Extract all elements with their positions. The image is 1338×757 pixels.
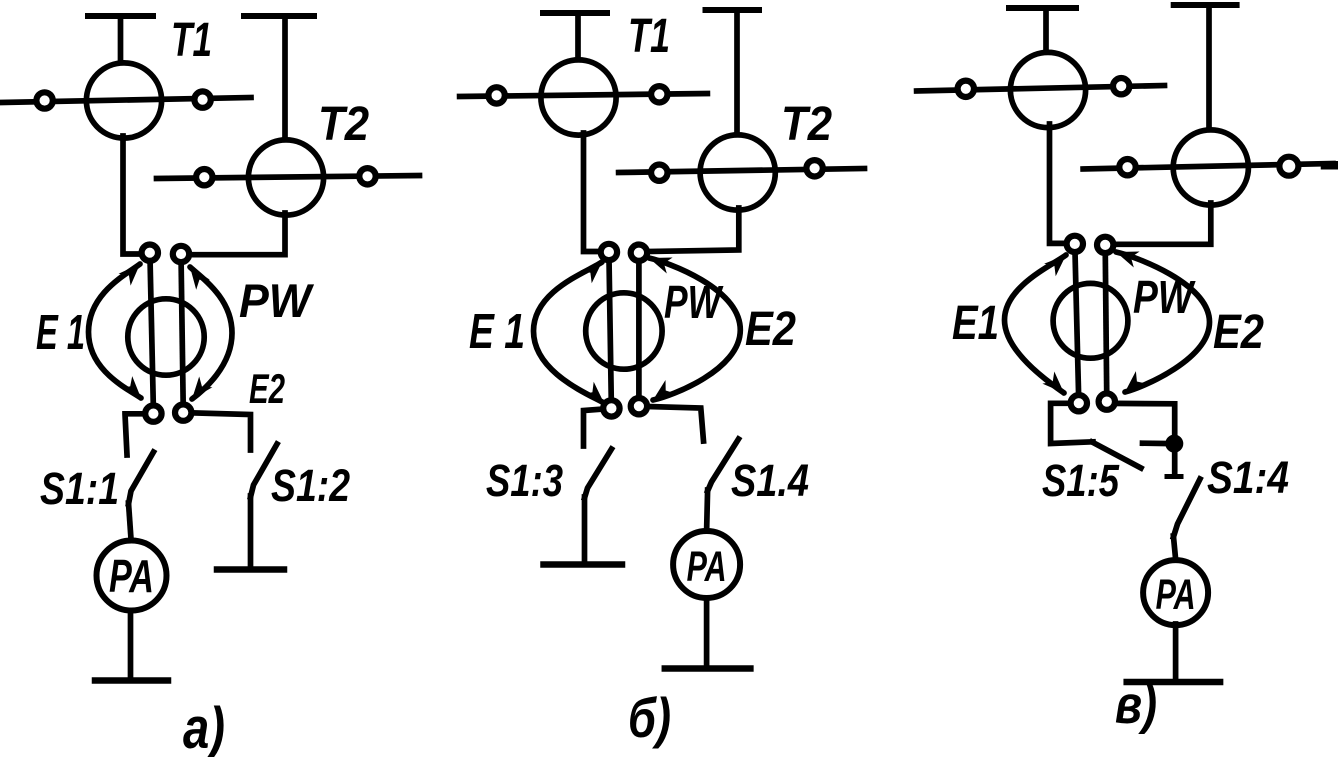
switch S1.4 (b) <box>708 439 739 491</box>
node PW top-left terminal (a) <box>142 245 158 261</box>
terminal bar under PA (v) <box>1127 679 1220 686</box>
svg-text:PW: PW <box>1133 271 1196 323</box>
wire PW bottom-right to S1.4 (b) <box>647 407 704 442</box>
wire PW bottom-left down-left (v) <box>1051 403 1093 443</box>
wire primary line through T1 (a) <box>1 98 251 103</box>
switch S1:2 (a) <box>251 444 278 497</box>
terminal right of T2 (a) <box>359 168 375 184</box>
node PW top-right terminal (b) <box>631 245 647 261</box>
wire stub from bar to T1 (a) <box>118 16 124 64</box>
wire PA to terminal bar (b) <box>704 598 710 666</box>
terminal right of T2 (v) <box>1279 157 1298 176</box>
terminal right of T1 (b) <box>651 86 667 102</box>
transformer T1 (a) <box>86 63 161 138</box>
svg-text:PA: PA <box>687 543 727 591</box>
wire PW left vertical (a) <box>150 253 154 414</box>
junction dot (v) <box>1166 435 1183 452</box>
wire T2 to PW right terminal (b) <box>647 208 739 252</box>
wire secondary line through T2 (v) <box>1083 164 1333 170</box>
wire stub from bar to T1 (v) <box>1043 8 1049 54</box>
arrow E1 bottom head (a) <box>120 376 141 398</box>
wire junction end tick (v) <box>1167 474 1181 479</box>
wire top supply bar 1 (v) <box>1009 5 1076 11</box>
wire S1.4 to PA (b) <box>707 490 708 531</box>
wattmeter PW (v) <box>1053 283 1128 358</box>
terminal left of T1 (b) <box>488 87 504 103</box>
svg-text:E2: E2 <box>1213 306 1264 359</box>
transformer T2 (b) <box>700 135 775 210</box>
svg-text:в): в) <box>1115 675 1157 735</box>
svg-text:PW: PW <box>239 274 314 327</box>
node PW bottom-left terminal (v) <box>1071 395 1087 411</box>
arrow E2 top head (a) <box>190 267 210 290</box>
arrow E2 top head (b) <box>649 258 673 274</box>
svg-text:S1.4: S1.4 <box>731 455 809 506</box>
wire S1:5 fixed contact stub (v) <box>1143 440 1171 446</box>
wire S1:3 to terminal bar (b) <box>582 497 588 562</box>
wire PW bottom-right to junction (v) <box>1115 403 1175 476</box>
wire secondary line end tick (v) <box>1325 161 1337 170</box>
terminal left of T2 (a) <box>196 169 212 185</box>
wire PW left vertical (b) <box>609 252 612 408</box>
terminal right of T1 (a) <box>194 91 210 107</box>
svg-text:S1:2: S1:2 <box>271 460 350 511</box>
svg-text:PW: PW <box>664 276 724 328</box>
wire secondary line through T2 (a) <box>157 176 420 179</box>
wire T2 to PW right terminal (v) <box>1113 203 1211 244</box>
arrow E1 top head (b) <box>580 262 602 283</box>
wire PW right vertical (v) <box>1105 245 1107 402</box>
wire T1 to PW left terminal (v) <box>1050 124 1067 243</box>
wire PW right vertical (b) <box>636 253 642 406</box>
arrow E2 bottom head (v) <box>1125 371 1147 392</box>
wire PW bottom-left to S1:3 (b) <box>584 409 604 446</box>
svg-text:E2: E2 <box>745 303 796 356</box>
ammeter PA (a) <box>97 541 167 611</box>
transformer T2 (a) <box>248 140 323 215</box>
terminal left of T1 (v) <box>958 81 974 97</box>
wire PA to terminal bar (a) <box>128 612 134 680</box>
wire top supply bar 2 (b) <box>706 7 760 13</box>
wire S1:4 to PA (v) <box>1173 536 1175 559</box>
node PW top-left terminal (v) <box>1067 236 1083 252</box>
node PW top-right terminal (a) <box>173 246 189 262</box>
node PW bottom-left terminal (a) <box>145 405 161 421</box>
arrow E2 arc (v) <box>1116 252 1210 392</box>
wire top supply bar 1 (a) <box>88 13 153 19</box>
wire primary line through T1 (b) <box>460 94 708 97</box>
arrow E1 bottom head (v) <box>1042 372 1064 394</box>
wattmeter PW (b) <box>586 293 662 369</box>
svg-text:E1: E1 <box>952 297 999 350</box>
node PW top-left terminal (b) <box>601 244 617 260</box>
wire PW bottom-left to S1:1 (a) <box>125 414 145 455</box>
wire stub from bar to T2 (a) <box>282 16 288 141</box>
terminal left of T2 (v) <box>1119 159 1135 175</box>
arrow E1 arc (a) <box>89 264 142 398</box>
wire S1:2 to terminal bar (a) <box>248 496 254 567</box>
arrow E2 arc (b) <box>649 258 740 400</box>
wire T1 to PW left terminal (a) <box>123 136 142 254</box>
arrow E1 top head (v) <box>1044 255 1066 276</box>
wire stub from bar to T1 (b) <box>575 13 581 60</box>
arrow E1 arc (b) <box>534 262 605 403</box>
svg-text:T1: T1 <box>171 14 212 67</box>
arrow E1 top head (a) <box>119 264 141 286</box>
wire top supply bar 2 (v) <box>1174 2 1237 8</box>
svg-text:T2: T2 <box>318 98 369 151</box>
terminal bar under S1:3 (b) <box>544 561 623 568</box>
switch S1:1 (a) <box>129 452 154 504</box>
node PW bottom-right terminal (a) <box>175 404 191 420</box>
arrow E2 bottom head (a) <box>192 377 212 400</box>
ammeter PA (b) <box>673 531 740 598</box>
transformer T1 (v) <box>1010 52 1085 127</box>
transformer T2 (v) <box>1173 130 1248 205</box>
arrow E2 arc (a) <box>190 267 232 399</box>
wire stub from bar to T2 (v) <box>1206 5 1212 132</box>
svg-text:PA: PA <box>1156 571 1196 619</box>
terminal left of T2 (b) <box>651 165 667 181</box>
wattmeter PW (a) <box>128 299 204 375</box>
wire PW right vertical (a) <box>181 254 183 413</box>
terminal left of T1 (a) <box>36 92 52 108</box>
wire stub from bar to T2 (b) <box>734 10 740 137</box>
arrow E1 bottom head (b) <box>582 382 604 403</box>
transformer T1 (b) <box>541 60 616 135</box>
svg-text:S1:3: S1:3 <box>486 455 563 506</box>
terminal bar under PA (b) <box>665 665 751 672</box>
wire PW bottom-right to S1:2 (a) <box>192 413 251 450</box>
wire primary line through T1 (v) <box>917 86 1165 92</box>
svg-text:E 1: E 1 <box>469 305 525 359</box>
terminal bar under PA (a) <box>95 677 168 684</box>
wire T2 to PW right terminal (a) <box>190 213 285 255</box>
switch S1:4 (v) <box>1173 479 1200 537</box>
arrow E2 bottom head (b) <box>653 380 676 400</box>
svg-text:б): б) <box>628 686 671 749</box>
ammeter PA (v) <box>1143 560 1208 625</box>
terminal right of T2 (b) <box>806 160 822 176</box>
wire S1:1 to PA (a) <box>129 503 132 539</box>
switch S1:3 (b) <box>585 449 612 498</box>
svg-text:S1:1: S1:1 <box>40 463 119 514</box>
svg-text:PA: PA <box>109 550 154 602</box>
wire secondary line through T2 (b) <box>619 169 865 173</box>
svg-text:T2: T2 <box>781 98 832 151</box>
node PW bottom-right terminal (v) <box>1099 393 1115 409</box>
svg-text:E2: E2 <box>249 365 285 412</box>
terminal right of T1 (v) <box>1113 78 1129 94</box>
terminal bar under S1:2 (a) <box>217 566 284 573</box>
node PW bottom-right terminal (b) <box>631 398 647 414</box>
wire PA to terminal bar (v) <box>1173 624 1179 680</box>
svg-text:T1: T1 <box>628 10 670 63</box>
node PW top-right terminal (v) <box>1097 237 1113 253</box>
svg-text:E 1: E 1 <box>36 306 85 360</box>
svg-text:S1:5: S1:5 <box>1042 455 1120 506</box>
svg-text:S1:4: S1:4 <box>1207 452 1289 503</box>
node PW bottom-left terminal (b) <box>603 400 619 416</box>
wire top supply bar 2 (a) <box>244 13 314 19</box>
wire T1 to PW left terminal (b) <box>584 133 602 252</box>
switch S1:5 blade (v) <box>1092 442 1141 468</box>
wire PW left vertical (v) <box>1075 244 1079 403</box>
arrow E1 arc (v) <box>1005 255 1067 393</box>
svg-text:а): а) <box>183 696 225 757</box>
wire top supply bar 1 (b) <box>543 10 607 16</box>
arrow E2 top head (v) <box>1116 252 1140 268</box>
